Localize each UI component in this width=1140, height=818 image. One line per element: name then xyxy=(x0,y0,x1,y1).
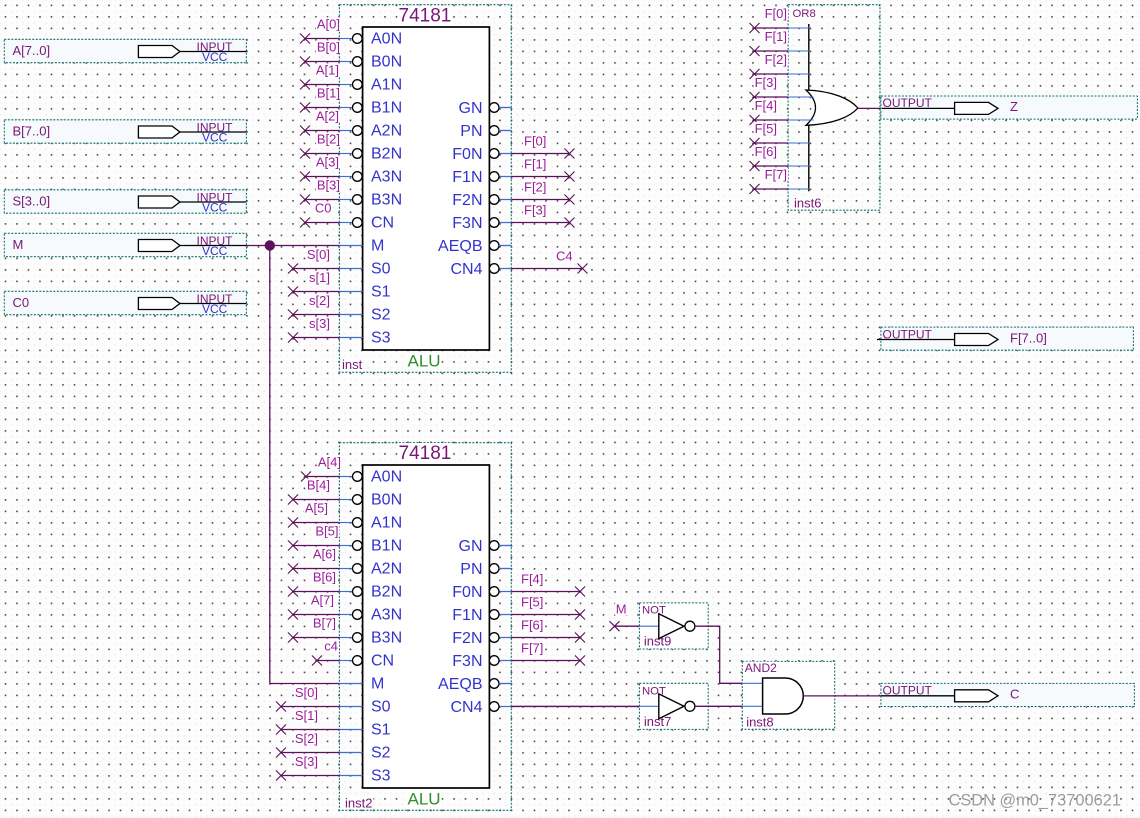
wire node F[7] from pin F3N of inst2 xyxy=(511,641,585,666)
svg-text:S0: S0 xyxy=(371,699,391,716)
svg-text:CN: CN xyxy=(371,215,394,232)
pin M of inst2 xyxy=(339,676,384,693)
svg-text:B[6]: B[6] xyxy=(313,570,336,585)
svg-text:B[5]: B[5] xyxy=(315,524,338,539)
svg-text:A2N: A2N xyxy=(371,123,402,140)
svg-text:B[7]: B[7] xyxy=(313,616,336,631)
wire node s[2] to pin S2 of inst xyxy=(288,293,339,320)
svg-text:S[2]: S[2] xyxy=(295,731,318,746)
svg-text:F[1]: F[1] xyxy=(524,157,546,172)
pin AEQB of inst2 xyxy=(438,676,511,693)
svg-text:CSDN @m0_73700621: CSDN @m0_73700621 xyxy=(949,792,1121,810)
svg-text:C4: C4 xyxy=(556,249,573,264)
wire node F[5] to OR8 input 6 xyxy=(750,121,810,148)
svg-text:inst9: inst9 xyxy=(644,634,671,649)
pin B0N of inst xyxy=(339,54,402,71)
wire M input to ALU1 M pin xyxy=(246,245,339,247)
svg-text:B2N: B2N xyxy=(371,584,402,601)
wire NOT inst9 output to AND2 input 1 xyxy=(695,626,742,683)
wire stub AEQB of inst2 xyxy=(499,683,511,685)
wire node C4 from pin CN4 of inst xyxy=(511,249,587,274)
input pin A xyxy=(4,39,246,64)
svg-text:B2N: B2N xyxy=(371,146,402,163)
wire node A[2] to pin A2N of inst xyxy=(300,109,340,136)
wire stub GN of inst2 xyxy=(499,545,511,547)
svg-text:F[5]: F[5] xyxy=(521,595,543,610)
svg-text:S0: S0 xyxy=(371,261,391,278)
pin S3 of inst xyxy=(339,330,390,347)
pin B1N of inst2 xyxy=(339,538,402,555)
svg-text:S[3]: S[3] xyxy=(295,754,318,769)
wire node A[5] to pin A1N of inst2 xyxy=(288,501,339,528)
svg-text:F[5]: F[5] xyxy=(755,121,777,136)
input pin S xyxy=(4,190,246,215)
svg-text:F[7..0]: F[7..0] xyxy=(1010,330,1047,345)
wire node B[7] to pin B3N of inst2 xyxy=(288,616,339,643)
pin GN of inst2 xyxy=(459,538,512,555)
svg-text:inst8: inst8 xyxy=(746,714,773,729)
pin B2N of inst2 xyxy=(339,584,402,601)
OR8 gate body xyxy=(806,24,858,191)
svg-text:ALU: ALU xyxy=(408,351,441,370)
input pin C0 xyxy=(4,291,246,316)
svg-text:A[3]: A[3] xyxy=(316,155,339,170)
svg-text:VCC: VCC xyxy=(202,131,228,145)
svg-text:B[0]: B[0] xyxy=(317,40,340,55)
not-gate NOT inst9 xyxy=(639,603,708,649)
pin S2 of inst xyxy=(339,307,390,324)
svg-text:B[1]: B[1] xyxy=(317,86,340,101)
svg-text:F3N: F3N xyxy=(452,653,482,670)
svg-text:S3: S3 xyxy=(371,330,391,347)
svg-text:CN4: CN4 xyxy=(450,699,482,716)
svg-text:74181: 74181 xyxy=(399,5,452,26)
svg-text:B[3]: B[3] xyxy=(317,178,340,193)
svg-text:F1N: F1N xyxy=(452,169,482,186)
svg-text:A3N: A3N xyxy=(371,607,402,624)
pin F0N of inst xyxy=(452,146,511,163)
svg-text:M: M xyxy=(371,676,384,693)
wire node s[3] to pin S3 of inst xyxy=(288,316,339,343)
pin A2N of inst xyxy=(339,123,402,140)
svg-text:F[4]: F[4] xyxy=(521,572,543,587)
svg-text:PN: PN xyxy=(460,561,482,578)
svg-text:inst2: inst2 xyxy=(345,795,372,810)
not-gate NOT inst7 xyxy=(639,683,708,729)
svg-text:M: M xyxy=(616,602,627,617)
pin B1N of inst xyxy=(339,100,402,117)
wire stub AEQB of inst xyxy=(499,245,511,247)
pin CN of inst xyxy=(339,215,394,232)
wire node F[6] to OR8 input 7 xyxy=(750,144,810,171)
wire node B[0] to pin B0N of inst xyxy=(300,40,341,67)
svg-text:F[6]: F[6] xyxy=(755,144,777,159)
and-gate AND2 inst8 xyxy=(742,661,834,729)
pin CN of inst2 xyxy=(339,653,394,670)
svg-text:F0N: F0N xyxy=(452,146,482,163)
svg-text:B[7..0]: B[7..0] xyxy=(13,124,51,139)
input pin B xyxy=(4,120,246,145)
svg-text:F[2]: F[2] xyxy=(765,52,787,67)
svg-text:A3N: A3N xyxy=(371,169,402,186)
svg-text:A0N: A0N xyxy=(371,469,402,486)
74181 ALU block inst2 xyxy=(339,443,511,811)
pin F2N of inst xyxy=(452,192,511,209)
svg-text:F[7]: F[7] xyxy=(521,641,543,656)
svg-text:VCC: VCC xyxy=(202,201,228,215)
svg-text:S[3..0]: S[3..0] xyxy=(13,194,51,209)
svg-text:ALU: ALU xyxy=(408,790,441,809)
wire node A[7] to pin A3N of inst2 xyxy=(288,593,339,620)
wire node F[3] from pin F3N of inst xyxy=(511,203,574,228)
wire node A[0] to pin A0N of inst xyxy=(300,17,341,44)
svg-text:M: M xyxy=(13,237,24,252)
wire node F[0] to OR8 input 1 xyxy=(750,6,810,33)
svg-text:A[2]: A[2] xyxy=(316,109,339,124)
svg-text:S1: S1 xyxy=(371,284,391,301)
pin B0N of inst2 xyxy=(339,492,402,509)
svg-text:B1N: B1N xyxy=(371,100,402,117)
svg-text:S2: S2 xyxy=(371,745,391,762)
svg-text:VCC: VCC xyxy=(202,302,228,316)
wire stub PN of inst2 xyxy=(499,568,511,570)
pin S1 of inst2 xyxy=(339,722,390,739)
svg-text:VCC: VCC xyxy=(202,244,228,258)
wire node F[7] to OR8 input 8 xyxy=(750,167,810,194)
wire node F[4] from pin F0N of inst2 xyxy=(511,572,585,597)
node M junction xyxy=(265,240,275,250)
output pin Z xyxy=(881,96,1138,119)
wire node M to NOT inst9 input xyxy=(610,602,640,632)
pin S2 of inst2 xyxy=(339,745,390,762)
svg-text:A[1]: A[1] xyxy=(316,63,339,78)
svg-text:B0N: B0N xyxy=(371,492,402,509)
svg-text:A[0]: A[0] xyxy=(317,17,340,32)
svg-text:M: M xyxy=(371,238,384,255)
wire node c4 to pin CN of inst2 xyxy=(312,639,339,666)
svg-text:GN: GN xyxy=(459,538,483,555)
svg-text:F[7]: F[7] xyxy=(765,167,787,182)
pin B2N of inst xyxy=(339,146,402,163)
svg-text:F3N: F3N xyxy=(452,215,482,232)
svg-text:S2: S2 xyxy=(371,307,391,324)
svg-text:C0: C0 xyxy=(315,201,332,216)
pin S1 of inst xyxy=(339,284,390,301)
svg-text:s[2]: s[2] xyxy=(309,293,330,308)
wire node A[3] to pin A3N of inst xyxy=(300,155,340,182)
wire OR8 output to Z xyxy=(858,107,882,109)
svg-text:NOT: NOT xyxy=(642,605,666,617)
svg-text:S1: S1 xyxy=(371,722,391,739)
output pin F xyxy=(877,327,1133,350)
pin S0 of inst xyxy=(339,261,390,278)
wire node A[4] to pin A0N of inst2 xyxy=(301,455,342,482)
pin A3N of inst xyxy=(339,169,402,186)
svg-text:C0: C0 xyxy=(13,295,30,310)
svg-text:A1N: A1N xyxy=(371,77,402,94)
wire node S[1] to pin S1 of inst2 xyxy=(276,708,339,735)
svg-text:inst7: inst7 xyxy=(644,714,671,729)
svg-text:A[4]: A[4] xyxy=(318,455,341,470)
watermark xyxy=(949,792,1121,810)
wire node A[6] to pin A2N of inst2 xyxy=(288,547,339,574)
svg-text:A[5]: A[5] xyxy=(305,501,328,516)
svg-text:AND2: AND2 xyxy=(745,661,777,675)
svg-text:S[0]: S[0] xyxy=(295,685,318,700)
svg-text:B[4]: B[4] xyxy=(307,478,330,493)
svg-text:inst: inst xyxy=(342,357,363,372)
output pin C xyxy=(881,683,1135,706)
svg-text:F2N: F2N xyxy=(452,192,482,209)
svg-text:F[0]: F[0] xyxy=(524,134,546,149)
wire node B[1] to pin B1N of inst xyxy=(300,86,341,113)
svg-text:74181: 74181 xyxy=(399,443,452,464)
wire node F[0] from pin F0N of inst xyxy=(511,134,574,159)
or-gate OR8 inst6 xyxy=(788,5,880,211)
wire node F[4] to OR8 input 5 xyxy=(750,98,814,125)
svg-text:PN: PN xyxy=(460,123,482,140)
pin F3N of inst2 xyxy=(452,653,511,670)
wire M to ALU2 M pin xyxy=(270,683,340,685)
svg-text:F0N: F0N xyxy=(452,584,482,601)
pin M of inst xyxy=(339,238,384,255)
svg-text:S3: S3 xyxy=(371,768,391,785)
wire node F[5] from pin F1N of inst2 xyxy=(511,595,585,620)
svg-text:VCC: VCC xyxy=(202,50,228,64)
pin PN of inst2 xyxy=(460,561,511,578)
pin CN4 of inst xyxy=(450,261,511,278)
wire node S[3] to pin S3 of inst2 xyxy=(276,754,339,781)
svg-text:AEQB: AEQB xyxy=(438,238,482,255)
svg-text:B1N: B1N xyxy=(371,538,402,555)
wire node S[0] to pin S0 of inst xyxy=(288,247,339,274)
svg-text:F[0]: F[0] xyxy=(765,6,787,21)
svg-text:B3N: B3N xyxy=(371,192,402,209)
svg-text:F1N: F1N xyxy=(452,607,482,624)
pin B3N of inst xyxy=(339,192,402,209)
svg-text:F[4]: F[4] xyxy=(755,98,777,113)
svg-text:A[7..0]: A[7..0] xyxy=(13,43,51,58)
svg-text:Z: Z xyxy=(1010,99,1018,114)
svg-text:S[1]: S[1] xyxy=(295,708,318,723)
pin A3N of inst2 xyxy=(339,607,402,624)
pin A0N of inst xyxy=(339,31,402,48)
svg-text:s[1]: s[1] xyxy=(309,270,330,285)
svg-text:F[2]: F[2] xyxy=(524,180,546,195)
pin F3N of inst xyxy=(452,215,511,232)
wire node S[0] to pin S0 of inst2 xyxy=(276,685,339,712)
wire stub GN of inst xyxy=(499,107,511,109)
wire node F[3] to OR8 input 4 xyxy=(750,75,814,102)
svg-text:OR8: OR8 xyxy=(793,8,816,20)
pin A1N of inst2 xyxy=(339,515,402,532)
pin B3N of inst2 xyxy=(339,630,402,647)
wire node s[1] to pin S1 of inst xyxy=(288,270,339,297)
svg-text:AEQB: AEQB xyxy=(438,676,482,693)
wire AND2 output to output C xyxy=(803,695,881,697)
svg-text:S[0]: S[0] xyxy=(307,247,330,262)
svg-text:A0N: A0N xyxy=(371,31,402,48)
pin AEQB of inst xyxy=(438,238,511,255)
wire node B[4] to pin B0N of inst2 xyxy=(288,478,339,505)
wire node B[6] to pin B2N of inst2 xyxy=(288,570,339,597)
svg-text:s[3]: s[3] xyxy=(309,316,330,331)
pin S0 of inst2 xyxy=(339,699,390,716)
svg-text:inst6: inst6 xyxy=(794,196,821,211)
wire node F[1] to OR8 input 2 xyxy=(750,29,810,56)
74181 ALU block inst xyxy=(339,5,511,373)
svg-text:GN: GN xyxy=(459,100,483,117)
svg-text:A[6]: A[6] xyxy=(313,547,336,562)
wire node B[3] to pin B3N of inst xyxy=(300,178,341,205)
wire NOT inst7 output to AND2 input 2 xyxy=(695,705,742,707)
input pin M xyxy=(4,233,246,258)
wire node F[2] from pin F2N of inst xyxy=(511,180,574,205)
svg-text:F[3]: F[3] xyxy=(755,75,777,90)
pin A0N of inst2 xyxy=(339,469,402,486)
wire node B[2] to pin B2N of inst xyxy=(300,132,341,159)
wire stub PN of inst xyxy=(499,130,511,132)
svg-text:CN4: CN4 xyxy=(450,261,482,278)
wire node B[5] to pin B1N of inst2 xyxy=(288,524,340,551)
svg-text:c4: c4 xyxy=(324,639,338,654)
wire node F[1] from pin F1N of inst xyxy=(511,157,574,182)
wire M junction down to ALU2 xyxy=(269,246,271,684)
pin PN of inst xyxy=(460,123,511,140)
svg-text:B[2]: B[2] xyxy=(317,132,340,147)
svg-text:A1N: A1N xyxy=(371,515,402,532)
wire node A[1] to pin A1N of inst xyxy=(300,63,340,90)
svg-text:F2N: F2N xyxy=(452,630,482,647)
pin F1N of inst xyxy=(452,169,511,186)
wire node C0 to pin CN of inst xyxy=(300,201,339,228)
wire node S[2] to pin S2 of inst2 xyxy=(276,731,339,758)
pin F1N of inst2 xyxy=(452,607,511,624)
svg-text:C: C xyxy=(1010,687,1019,702)
wire CN4 of inst2 to NOT inst7 input xyxy=(512,705,640,707)
svg-text:F[6]: F[6] xyxy=(521,618,543,633)
wire node F[2] to OR8 input 3 xyxy=(750,52,810,79)
pin F0N of inst2 xyxy=(452,584,511,601)
pin GN of inst xyxy=(459,100,512,117)
svg-text:CN: CN xyxy=(371,653,394,670)
pin A2N of inst2 xyxy=(339,561,402,578)
wire node CN4 from pin CN4 of inst2 xyxy=(511,706,639,708)
svg-text:F[3]: F[3] xyxy=(524,203,546,218)
svg-text:B3N: B3N xyxy=(371,630,402,647)
pin CN4 of inst2 xyxy=(450,699,511,716)
svg-text:F[1]: F[1] xyxy=(765,29,787,44)
pin F2N of inst2 xyxy=(452,630,511,647)
pin S3 of inst2 xyxy=(339,768,390,785)
svg-text:B0N: B0N xyxy=(371,54,402,71)
svg-text:A[7]: A[7] xyxy=(311,593,334,608)
pin A1N of inst xyxy=(339,77,402,94)
wire node F[6] from pin F2N of inst2 xyxy=(511,618,585,643)
svg-text:A2N: A2N xyxy=(371,561,402,578)
